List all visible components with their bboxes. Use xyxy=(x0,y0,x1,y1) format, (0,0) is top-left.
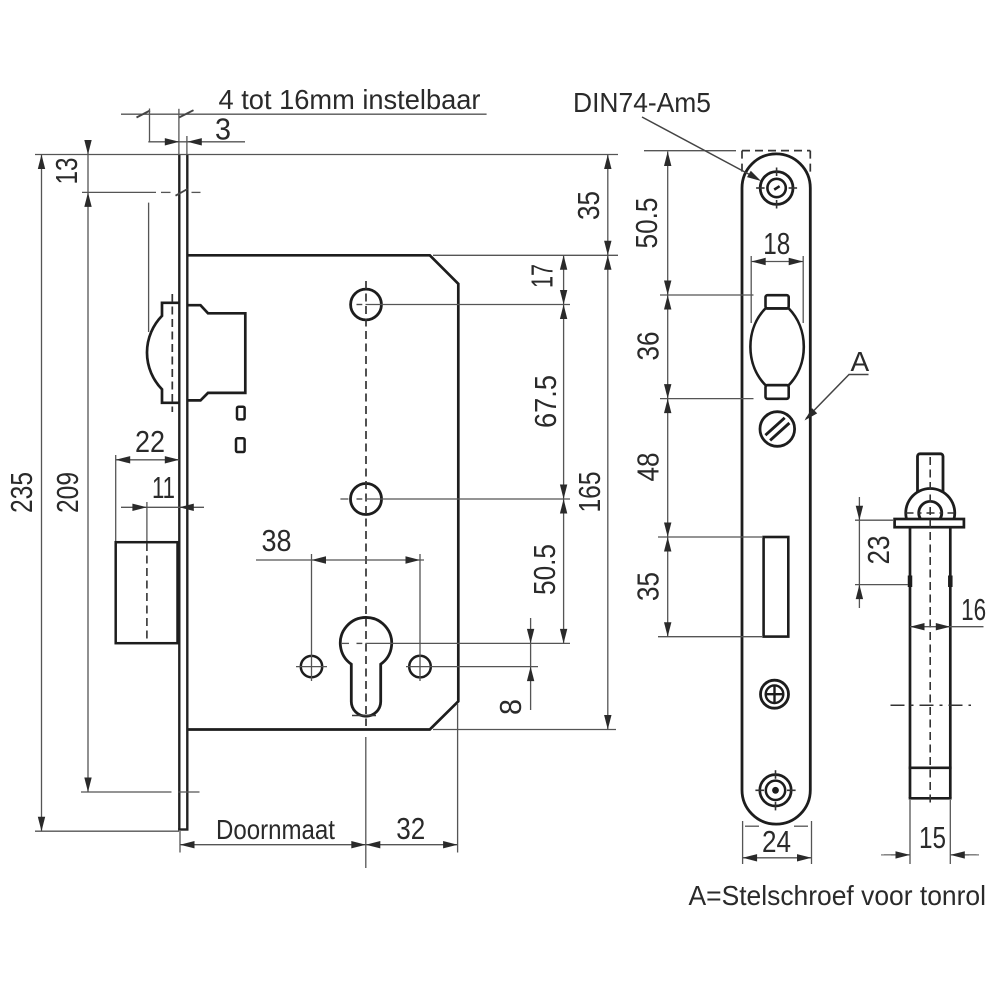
body cut line xyxy=(909,766,952,769)
mid ext y636.7 xyxy=(658,636,762,638)
dim 3 arrow left xyxy=(165,138,180,145)
svg-text:23: 23 xyxy=(861,536,896,565)
roller barrel xyxy=(750,308,803,385)
dim 3 arrow right xyxy=(187,138,202,145)
bottom screw center xyxy=(772,787,779,794)
top screw tick w xyxy=(756,187,765,189)
hole right extension vertical xyxy=(419,554,421,681)
right col1 dim line xyxy=(563,255,565,643)
bottom extension y831 xyxy=(35,830,179,832)
doornmaat arrow left xyxy=(180,841,195,848)
A leader arrowhead xyxy=(805,408,818,420)
screw hole left xyxy=(301,656,322,677)
dim 24 dash right xyxy=(794,825,808,827)
dim 15 ext right xyxy=(949,800,951,864)
hole left crosshair horizontal xyxy=(296,666,327,668)
cylinder left stub xyxy=(342,642,349,644)
dim 15 arrow right xyxy=(950,851,965,858)
DIN leader line xyxy=(642,117,757,179)
dim 22 extension left xyxy=(115,455,117,541)
dim 16 arrow right xyxy=(936,623,951,630)
extension line y192 oblique tick xyxy=(176,189,188,196)
dim 23 line xyxy=(858,497,860,608)
deadbolt xyxy=(116,542,178,643)
dim 32 arrow left xyxy=(366,841,381,848)
extension y792 xyxy=(81,791,172,793)
roller top block xyxy=(766,295,789,308)
dim 67.5 arrow top xyxy=(560,305,567,320)
faceplate side view front face xyxy=(178,155,180,830)
svg-text:Doornmaat: Doornmaat xyxy=(216,814,335,845)
svg-text:A=Stelschroef voor tonrol: A=Stelschroef voor tonrol xyxy=(689,880,987,911)
dim 23 arrow bottom xyxy=(856,585,863,600)
hub2 center dash xyxy=(357,498,363,500)
top screw tick n xyxy=(776,168,778,177)
svg-text:3: 3 xyxy=(215,112,231,147)
dim 15 arrow left xyxy=(896,851,911,858)
dim 15 line left xyxy=(884,854,910,856)
phillips cross v xyxy=(773,686,775,703)
top screw inner xyxy=(767,179,785,197)
deadbolt centerline extension xyxy=(146,502,148,541)
svg-text:35: 35 xyxy=(571,191,606,220)
bottom screw outer xyxy=(760,775,791,806)
hole right extension horizontal to 8 dim xyxy=(406,666,538,668)
svg-text:165: 165 xyxy=(572,472,607,513)
latch bolt body xyxy=(187,305,245,400)
dim 24 arrow right xyxy=(797,854,812,861)
bottom screw tick s xyxy=(775,802,777,811)
top screw tick s xyxy=(776,200,778,209)
svg-text:18: 18 xyxy=(763,226,790,261)
bottom screw middle xyxy=(766,781,785,800)
extension line y192 dash a xyxy=(161,191,171,193)
roller pin flange xyxy=(895,519,964,527)
dim 4tot16 line xyxy=(121,113,487,115)
square corner dashed right xyxy=(809,151,811,172)
extension y792 dash xyxy=(179,791,200,793)
mid ext y537 xyxy=(658,536,762,538)
dim 32 arrow right xyxy=(443,841,458,848)
dim 35 arrow top xyxy=(604,155,611,170)
dim 15 dash right xyxy=(953,854,979,856)
dim 24 arrow left xyxy=(743,854,758,861)
doornmaat dim line xyxy=(180,844,458,846)
dim 38 arrow left xyxy=(312,556,327,563)
hub circle middle xyxy=(351,484,382,515)
centerline extension to doornmaat xyxy=(365,737,367,868)
dim 3 line xyxy=(148,141,245,143)
pin centerline dashed xyxy=(929,457,931,806)
LEFT DIMS GROUP xyxy=(38,109,612,849)
svg-text:DIN74-Am5: DIN74-Am5 xyxy=(573,87,711,118)
svg-text:13: 13 xyxy=(49,158,84,185)
svg-text:48: 48 xyxy=(631,453,666,482)
svg-text:17: 17 xyxy=(525,264,560,288)
svg-text:50.5: 50.5 xyxy=(527,544,562,595)
dim 11 line xyxy=(121,506,204,508)
svg-text:38: 38 xyxy=(262,523,292,558)
svg-text:4 tot 16mm instelbaar: 4 tot 16mm instelbaar xyxy=(219,84,481,115)
dim 23 ext bottom xyxy=(855,584,908,586)
deadbolt centerline dashed xyxy=(146,543,148,642)
dim 17 arrow bottom xyxy=(560,290,567,305)
dim 50.5 arrow top xyxy=(560,499,567,514)
dim 38 line xyxy=(256,559,424,561)
edge nub right xyxy=(948,576,953,588)
square corner dashed left xyxy=(741,151,743,172)
svg-text:35: 35 xyxy=(631,572,666,601)
doornmaat extension left xyxy=(179,831,181,853)
lock case outline xyxy=(189,255,459,729)
dim 67.5 arrow bottom xyxy=(560,485,567,500)
latch centerline dashed xyxy=(171,294,173,412)
cylinder slot bottom cross dash xyxy=(352,715,376,717)
latch bolt head xyxy=(147,303,179,403)
dim 18 arrow right xyxy=(789,258,804,265)
roller pin body left edge xyxy=(909,527,912,798)
dim 8 line xyxy=(530,618,532,710)
main vertical centerline dashed xyxy=(365,281,367,726)
svg-text:A: A xyxy=(851,346,870,377)
mid dim col line xyxy=(667,152,669,637)
top screw center mark xyxy=(774,186,779,189)
RIGHT VIEW GROUP xyxy=(855,454,984,864)
right col2 dim line xyxy=(607,155,609,730)
dim 4tot16 riser xyxy=(149,109,151,143)
hub2 extension horizontal xyxy=(366,498,571,500)
dim 209-13 line xyxy=(87,143,89,792)
dim 50.5mid arrows xyxy=(664,152,671,637)
dim 23 ext top xyxy=(855,519,893,521)
dim 209 arrow bottom xyxy=(84,778,91,793)
dim 11 arrow right xyxy=(179,504,194,511)
top extension line y154 xyxy=(35,154,618,156)
dim 23 arrow top xyxy=(856,506,863,521)
faceplate back face extension up xyxy=(186,136,188,154)
cylinder center dash xyxy=(357,642,363,644)
DIN leader arrowhead xyxy=(747,171,761,181)
top screw outer xyxy=(760,172,793,205)
lock top extension right xyxy=(433,254,618,256)
edge nub left xyxy=(908,576,913,588)
faceplate side view back face xyxy=(186,155,188,830)
svg-text:8: 8 xyxy=(493,699,528,715)
deadbolt slot xyxy=(764,537,789,637)
dim 16 arrow left xyxy=(910,623,925,630)
dim 18 arrow left xyxy=(751,258,766,265)
dim 235 arrow top xyxy=(38,155,45,170)
dim 24 line xyxy=(743,857,812,859)
dim 11 arrow left xyxy=(132,504,147,511)
cylinder extension horizontal xyxy=(366,642,571,644)
dim 18 line xyxy=(751,261,803,263)
dim 17 arrow top xyxy=(560,255,567,269)
phillips screw outer xyxy=(761,680,789,708)
dim 24 ext right xyxy=(811,821,813,864)
dim 4tot16 tick 2 xyxy=(179,110,194,117)
svg-text:50.5: 50.5 xyxy=(629,198,664,249)
dim 8 arrow outside bottom xyxy=(527,667,534,682)
bottom screw tick n xyxy=(775,770,777,779)
dim 38 arrow right xyxy=(406,556,421,563)
dim 22 arrow right xyxy=(165,456,180,463)
adjusting screw slot line 1 xyxy=(770,423,789,440)
mid dim top ext xyxy=(644,150,736,152)
dim 8 arrow outside top xyxy=(527,629,534,644)
extension line y192 solid part xyxy=(82,191,156,193)
hub2 left stub xyxy=(340,498,348,500)
faceplate front face extension up xyxy=(178,109,180,154)
roller pin stem xyxy=(918,454,944,493)
roller pin dome inner xyxy=(919,501,942,519)
mid ext y398.5 xyxy=(660,398,754,400)
A leader line xyxy=(806,375,849,419)
faceplate bottom cap xyxy=(178,828,188,830)
adjusting screw A circle xyxy=(760,412,795,447)
bottom screw tick w xyxy=(755,789,764,791)
square corner option dashed top xyxy=(742,150,810,152)
MID VIEW GROUP xyxy=(642,117,869,864)
follower hub circle top xyxy=(351,289,382,320)
svg-text:235: 235 xyxy=(4,472,39,513)
dim 35 arrow bottom xyxy=(604,241,611,256)
svg-text:15: 15 xyxy=(919,820,946,855)
top screw tick e xyxy=(789,187,798,189)
dim 235 arrow bottom xyxy=(38,817,45,832)
dim 13 arrow outside top xyxy=(84,140,91,155)
dim 24 ext left xyxy=(742,821,744,864)
phillips screw inner xyxy=(766,685,784,703)
svg-text:36: 36 xyxy=(631,332,666,361)
spring clip square 2 xyxy=(236,438,245,452)
dim 4tot16 tick 1 xyxy=(137,111,151,118)
hub1 extension horizontal xyxy=(366,304,571,306)
svg-text:209: 209 xyxy=(50,472,85,513)
doornmaat arrow right xyxy=(351,841,366,848)
svg-text:67.5: 67.5 xyxy=(528,375,563,428)
svg-text:24: 24 xyxy=(762,824,791,859)
dim 165 arrow top xyxy=(604,255,611,269)
mid ext y295 xyxy=(660,294,754,296)
LEFT VIEW GROUP xyxy=(35,155,618,869)
dim 165 arrow bottom xyxy=(604,715,611,730)
dim 235 line xyxy=(41,155,43,832)
body bottom end xyxy=(909,797,952,800)
roller pin body right edge xyxy=(949,527,952,798)
doornmaat extension right xyxy=(457,704,459,853)
A leader landing xyxy=(849,374,869,376)
roller bottom block xyxy=(766,385,789,399)
dim 15 line right xyxy=(950,854,976,856)
dome horizontal dashes xyxy=(906,512,955,514)
adjusting screw slot line 2 xyxy=(765,418,784,435)
dim 13 arrow outside bottom xyxy=(84,192,91,207)
spring clip square 1 xyxy=(237,407,245,420)
dim 18 ext left xyxy=(750,256,752,323)
svg-text:11: 11 xyxy=(152,470,175,505)
dim 22 arrow left xyxy=(116,456,131,463)
latch face extension line xyxy=(148,203,150,332)
svg-text:22: 22 xyxy=(135,424,165,459)
dim 16 line xyxy=(910,626,984,628)
dim 18 ext right xyxy=(802,256,804,323)
phillips cross h xyxy=(766,693,783,695)
roller pin dome outer xyxy=(906,488,955,519)
hub1 center dash xyxy=(357,304,363,306)
lock bottom extension right xyxy=(433,729,616,731)
hole left extension vertical xyxy=(311,554,313,681)
bottom screw tick e xyxy=(787,789,796,791)
dim 15 ext left xyxy=(909,800,911,864)
dim 24 dash left xyxy=(745,825,759,827)
faceplate front view outline xyxy=(742,154,810,824)
screw hole right xyxy=(409,656,431,678)
pin mid horizontal dash line xyxy=(891,704,972,706)
dim 22 line xyxy=(116,459,180,461)
dim 15 dash left xyxy=(881,854,897,856)
svg-text:16: 16 xyxy=(961,592,986,627)
extension line y192 dash b xyxy=(192,191,201,193)
euro cylinder profile xyxy=(340,617,391,716)
dim 50.5 arrow bottom xyxy=(560,629,567,644)
svg-text:32: 32 xyxy=(396,811,425,846)
